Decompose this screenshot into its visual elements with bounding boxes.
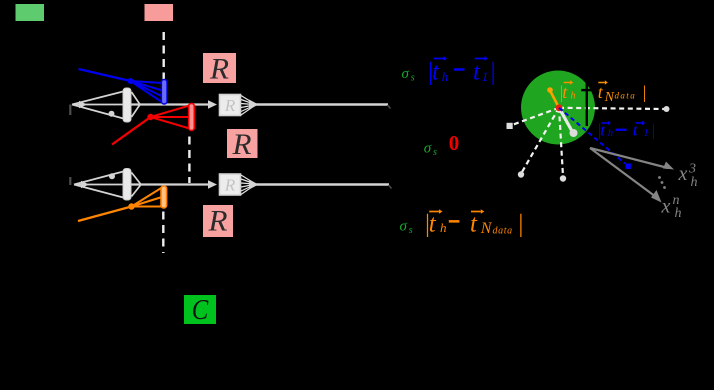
phase-space green circle xyxy=(521,71,595,145)
blue vertex dot xyxy=(128,78,134,84)
svg-text:h: h xyxy=(675,206,682,221)
orange label top: |t_h - t_Ndata| xyxy=(559,82,647,105)
row1 splitter: dot on lower fan line xyxy=(109,111,115,117)
row1 line end tail xyxy=(388,105,391,109)
orange t_h vector xyxy=(551,92,560,108)
row2 splitter: chevron after bar xyxy=(132,173,142,197)
closest data point dot xyxy=(570,129,578,137)
row2 splitter: arrowhead on axis xyxy=(81,181,89,189)
svg-text:R: R xyxy=(224,96,236,115)
svg-text:data: data xyxy=(615,91,637,101)
svg-text:R: R xyxy=(231,128,251,161)
red vertex dot xyxy=(147,114,153,120)
blue dashed t_1 vector xyxy=(559,108,625,164)
dashed ray to lower data point xyxy=(559,108,563,176)
svg-text:h: h xyxy=(608,128,613,139)
svg-text:|: | xyxy=(651,121,656,140)
dots between arrows xyxy=(658,176,666,189)
row1 long output line xyxy=(254,103,388,105)
gray observable arrow x_h^3 xyxy=(590,148,668,168)
row1 axis line to R box xyxy=(131,103,209,105)
svg-text:h: h xyxy=(440,220,447,235)
gray R box row2 xyxy=(220,174,241,195)
green C classifier box xyxy=(184,295,216,324)
blue distance label row1 xyxy=(427,59,497,86)
gray observable arrow x_h^n xyxy=(590,148,656,197)
svg-text:|: | xyxy=(489,59,496,86)
row1 out-fan after gray box xyxy=(241,96,254,116)
black absolute bar over circle xyxy=(586,79,588,126)
svg-text:x: x xyxy=(661,196,671,218)
svg-text:|: | xyxy=(517,211,524,238)
black minus sign over circle xyxy=(581,89,592,91)
label x_h^n xyxy=(661,193,682,221)
legend pink box xyxy=(145,4,174,21)
blue fan lines xyxy=(131,81,163,103)
orange distance label row3 xyxy=(424,211,524,238)
svg-text:σ: σ xyxy=(424,141,432,157)
svg-text:h: h xyxy=(691,175,698,190)
dashed detector line D3 (below orange bar) xyxy=(162,212,164,254)
row2 axis line to R box xyxy=(131,183,209,185)
red measurement bar xyxy=(189,104,195,131)
row2 splitter: bar xyxy=(123,169,131,201)
svg-text:t: t xyxy=(432,59,440,86)
svg-text:0: 0 xyxy=(449,131,460,155)
orange fan lines xyxy=(132,188,163,207)
row1 axis arrowhead xyxy=(208,100,217,109)
row1 splitter: fan lines xyxy=(72,91,127,120)
svg-text:R: R xyxy=(224,175,236,194)
row2 out-fan arrowhead xyxy=(249,180,259,190)
svg-text:C: C xyxy=(192,294,209,326)
blue vector arrows row1 xyxy=(434,56,488,61)
row1 splitter: arrowhead on axis xyxy=(79,101,87,109)
row1 splitter: bar xyxy=(123,88,131,122)
data point lower xyxy=(560,175,566,181)
gray R box row1 xyxy=(220,95,241,116)
data point right xyxy=(664,106,670,112)
row1 out-fan arrowhead xyxy=(249,100,259,110)
data point left (square) xyxy=(507,123,513,129)
blue measurement bar xyxy=(161,80,167,105)
legend green box xyxy=(16,4,45,21)
row2 line end tail xyxy=(389,185,392,189)
dashed ray to lower-left data point xyxy=(522,108,559,172)
svg-text:s: s xyxy=(411,73,415,84)
row1 splitter: start tick xyxy=(69,105,71,116)
pink R box row2 (middle) xyxy=(227,129,258,158)
svg-text:σ: σ xyxy=(402,66,410,82)
orange t_h endpoint dot xyxy=(547,87,553,93)
row2 out-fan after gray box xyxy=(241,175,254,195)
svg-text:data: data xyxy=(493,226,513,237)
label x_h^3 xyxy=(678,162,698,191)
red splitting: incoming line xyxy=(112,117,151,145)
dashed ray to left data point xyxy=(512,108,559,125)
row2 splitter: dot on upper fan line xyxy=(109,173,115,179)
svg-text:R: R xyxy=(207,205,227,238)
svg-text:t: t xyxy=(429,211,437,238)
svg-text:1: 1 xyxy=(644,128,649,139)
orange vector arrows row3 xyxy=(429,209,484,214)
blue splitting: incoming line xyxy=(79,69,131,81)
svg-text:s: s xyxy=(409,225,413,236)
row2 splitter: fan lines xyxy=(74,171,127,199)
svg-text:s: s xyxy=(433,147,437,158)
row2 long output line xyxy=(254,183,389,185)
data point lower-left xyxy=(518,171,524,177)
svg-text:R: R xyxy=(209,53,229,86)
svg-text:h: h xyxy=(442,69,449,84)
svg-text:t: t xyxy=(470,211,478,238)
blue label right: |t_h - t_1| xyxy=(597,121,655,140)
row2 splitter: start tick xyxy=(69,177,71,185)
pink R box row3 xyxy=(203,205,233,237)
row2 axis arrowhead xyxy=(208,180,217,189)
svg-text:N: N xyxy=(604,90,615,105)
row1 splitter: chevron after bar xyxy=(132,92,141,117)
closest-vector solid line xyxy=(559,108,573,132)
pink R box row1 xyxy=(203,53,236,83)
blue label vector arrows xyxy=(601,121,645,125)
orange vertex dot xyxy=(128,203,134,209)
red center dot xyxy=(556,104,563,111)
svg-text:σ: σ xyxy=(400,219,408,235)
orange splitting: incoming line xyxy=(78,207,132,222)
dashed ray to right data point xyxy=(559,108,664,109)
svg-text:|: | xyxy=(642,82,647,102)
blue t_1 endpoint dot xyxy=(626,164,631,169)
orange label vector arrows xyxy=(564,80,608,84)
svg-text:N: N xyxy=(480,220,493,237)
svg-text:h: h xyxy=(571,90,576,101)
orange measurement bar xyxy=(161,186,167,208)
svg-text:x: x xyxy=(678,163,688,185)
red fan lines xyxy=(151,106,190,129)
dashed detector line D2 (below red bar) xyxy=(188,137,190,184)
dashed detector line D1 (above blue bar) xyxy=(162,32,164,80)
svg-text:1: 1 xyxy=(482,69,489,84)
svg-text:t: t xyxy=(473,59,481,86)
